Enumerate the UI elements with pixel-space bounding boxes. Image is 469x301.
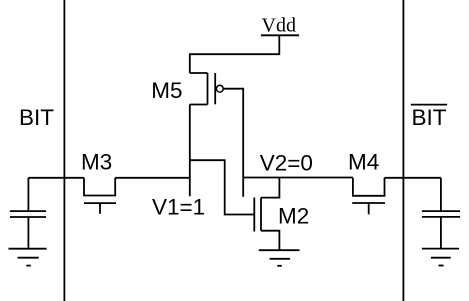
svg-text:M3: M3 bbox=[81, 150, 112, 175]
ground (left, below C-left) bbox=[9, 249, 47, 266]
svg-text:M5: M5 bbox=[151, 78, 182, 103]
transistor M4 (pass NMOS) bbox=[352, 178, 385, 215]
bit line rail BIT (left vertical) bbox=[63, 0, 65, 301]
capacitor C-left bbox=[10, 178, 46, 249]
wire left capacitor to M3 bbox=[28, 177, 84, 179]
wire M3 to node V1 bbox=[115, 177, 190, 179]
ground (right, below C-right) bbox=[422, 249, 459, 266]
node V1 (vertical wire M5 drain down) bbox=[189, 105, 191, 197]
power rail Vdd (underline) bbox=[261, 34, 299, 36]
wire M4 to right capacitor bbox=[385, 177, 441, 179]
label BITbar (overline) bbox=[411, 105, 447, 130]
svg-text:BIT: BIT bbox=[412, 105, 447, 130]
svg-text:V2=0: V2=0 bbox=[260, 151, 313, 176]
ground (below M2) bbox=[259, 250, 300, 266]
svg-text:BIT: BIT bbox=[19, 105, 54, 130]
wire V1 to M2 gate bbox=[190, 160, 255, 214]
wire Vdd to M5 source bbox=[190, 35, 279, 73]
svg-text:M2: M2 bbox=[278, 204, 309, 229]
svg-text:V1=1: V1=1 bbox=[152, 195, 205, 220]
bit line rail BITbar (right vertical) bbox=[402, 0, 404, 301]
svg-text:M4: M4 bbox=[348, 150, 379, 175]
wire node V2 horizontal bbox=[243, 177, 353, 179]
wire M5 gate to node V2 bbox=[223, 89, 243, 197]
svg-text:Vdd: Vdd bbox=[262, 15, 296, 37]
transistor M5 (PMOS) bbox=[190, 73, 223, 105]
transistor M2 (NMOS) bbox=[254, 178, 279, 251]
capacitor C-right bbox=[422, 178, 460, 249]
transistor M3 (pass NMOS) bbox=[84, 178, 116, 214]
